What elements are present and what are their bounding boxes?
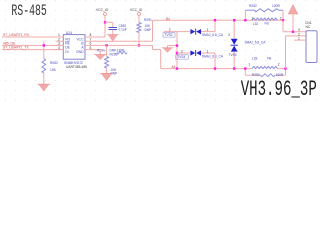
svg-text:ST_USART1_RX: ST_USART1_RX <box>3 33 30 37</box>
wire TVS4 to A <box>214 53 216 69</box>
svg-text:5: 5 <box>90 46 92 50</box>
wire A net horizontal <box>96 44 153 46</box>
svg-text:120R: 120R <box>272 4 281 8</box>
decorative grid <box>5 0 316 101</box>
capacitor C552 <box>109 27 118 29</box>
junction TVS3/A <box>233 67 235 69</box>
svg-text:1: 1 <box>207 49 209 53</box>
svg-text:0.1uF: 0.1uF <box>119 27 127 31</box>
wire pin2 stub <box>56 40 64 42</box>
svg-text:R294: R294 <box>97 49 105 53</box>
svg-text:2: 2 <box>181 49 183 53</box>
svg-text:10K: 10K <box>50 68 57 72</box>
junction TVS4/A <box>214 67 216 69</box>
svg-text:R292: R292 <box>249 4 257 8</box>
svg-text:R291: R291 <box>144 18 152 22</box>
svg-text:R062: R062 <box>50 61 58 65</box>
wire ground branch <box>168 45 178 47</box>
inductor L33 ferrite bead <box>252 66 278 68</box>
junction pair2 left <box>244 67 246 69</box>
svg-text:2: 2 <box>280 16 282 20</box>
wire B net riser <box>152 20 154 41</box>
junction pair right <box>282 19 284 21</box>
svg-text:L33: L33 <box>252 56 258 60</box>
wire pin3 stub <box>56 44 64 46</box>
wire net ST_USART1_TX <box>2 49 64 51</box>
svg-text:1: 1 <box>207 28 209 32</box>
wire TVS4 row <box>177 52 190 54</box>
svg-text:TVS4: TVS4 <box>177 55 185 59</box>
wire TVS3 vertical <box>233 20 235 38</box>
junction TVS2/B <box>214 19 216 21</box>
resistor R292 <box>244 10 246 20</box>
ground under R295 <box>101 74 111 81</box>
resistor R291 <box>137 23 141 33</box>
wire net ST_USART1_RX <box>2 36 64 38</box>
svg-text:1: 1 <box>252 16 254 20</box>
svg-text:DI: DI <box>65 50 68 54</box>
wire TVS center tie <box>176 32 178 69</box>
wire pin1 stub <box>56 36 64 38</box>
wire to C552 <box>105 21 113 23</box>
svg-text:DNP: DNP <box>145 28 152 32</box>
svg-text:UART485-485: UART485-485 <box>66 65 87 69</box>
wire CN1 pin1 stub <box>294 39 306 41</box>
diode TVS4 SMAJ_6.8_CA <box>190 50 195 55</box>
wire A bottom line <box>161 68 246 70</box>
svg-text:DNP,120R: DNP,120R <box>110 49 126 53</box>
wire pin8 stub <box>85 36 96 38</box>
diode TVS2 SMAJ_6.8_CA <box>190 29 195 34</box>
wire pin5 to ground <box>99 50 101 55</box>
svg-text:1: 1 <box>248 63 250 67</box>
svg-text:2: 2 <box>278 63 280 67</box>
wire A net staircase <box>152 45 154 49</box>
svg-text:L32: L32 <box>253 22 259 26</box>
svg-text:SMAJ_6.8_CA: SMAJ_6.8_CA <box>202 33 224 37</box>
wire R062 to ground <box>43 73 45 84</box>
svg-text:SMAJ_6.8_CA: SMAJ_6.8_CA <box>202 55 224 59</box>
svg-text:GND: GND <box>76 50 84 54</box>
ground pin5 <box>95 55 105 60</box>
junction TVS3/B <box>233 19 235 21</box>
svg-text:R295: R295 <box>110 52 118 56</box>
svg-text:VCC_IO: VCC_IO <box>130 8 143 12</box>
junction pair2 right <box>284 67 286 69</box>
junction pair left <box>244 19 246 21</box>
wire pin7 stub <box>85 40 96 42</box>
resistor R062 <box>42 59 46 74</box>
junction DE tie <box>43 44 45 46</box>
resistor R293 <box>244 69 246 76</box>
wire R295 to ground <box>106 68 108 74</box>
diode TVS3 SMAJ_6.8_CA <box>231 39 238 45</box>
junction tie row2 <box>176 52 178 54</box>
junction R291/A <box>138 44 140 46</box>
svg-text:2: 2 <box>169 28 171 32</box>
svg-text:ST_USART1_TX: ST_USART1_TX <box>3 46 29 50</box>
wire VCC to R291 <box>138 16 140 23</box>
ground under R062 <box>39 84 49 91</box>
svg-text:A4: A4 <box>172 65 176 69</box>
svg-text:TVS2: TVS2 <box>165 33 173 37</box>
junction VCC/C552 <box>104 21 106 23</box>
svg-text:VH3.96_3P: VH3.96_3P <box>241 77 317 101</box>
svg-text:RS-485: RS-485 <box>11 2 46 20</box>
wire pin5 stub <box>85 49 100 51</box>
power arrow <box>292 14 294 32</box>
junction tie A line <box>176 67 178 69</box>
svg-text:SMAJ_6.8_CA: SMAJ_6.8_CA <box>245 41 267 45</box>
wire TVS2 row <box>164 31 190 33</box>
wire net 485_DE <box>2 44 64 46</box>
svg-text:VCC_IO: VCC_IO <box>96 8 109 12</box>
svg-text:100R: 100R <box>276 73 284 77</box>
wire ground stem <box>167 46 169 48</box>
IC U24 SN65HVD72 RS-485 transceiver <box>63 35 85 60</box>
resistor R295 <box>106 45 108 56</box>
wire B top line <box>153 19 284 21</box>
wire pin6 stub <box>85 44 96 46</box>
svg-text:B4: B4 <box>166 17 170 21</box>
wire to CN1 pin3 <box>282 20 284 32</box>
inductor L32 ferrite bead <box>252 18 278 20</box>
TVS2 label <box>163 33 175 37</box>
svg-text:FB: FB <box>267 56 271 60</box>
svg-text:FB: FB <box>265 22 269 26</box>
svg-text:NC: NC <box>306 25 311 29</box>
junction R295/A <box>105 44 107 46</box>
svg-text:4: 4 <box>58 46 60 50</box>
wire to CN1 pin2 <box>285 36 287 69</box>
svg-text:R293: R293 <box>252 73 260 77</box>
ground under C552 <box>108 35 117 41</box>
svg-text:TVS3: TVS3 <box>229 53 237 57</box>
wire pin4 stub <box>56 49 64 51</box>
wire C552 to ground <box>112 30 114 35</box>
TVS4 label <box>176 55 189 59</box>
svg-text:2: 2 <box>228 33 230 37</box>
wire RE-DE tie <box>43 41 45 58</box>
wire R291 to A net <box>138 33 140 46</box>
svg-text:U24: U24 <box>66 31 72 35</box>
junction arrow <box>292 31 294 33</box>
wire VCC to pin8 <box>104 16 106 38</box>
junction tie/ground <box>176 44 178 46</box>
ground TVS center <box>163 48 172 53</box>
wire TVS2 to B <box>214 20 216 31</box>
svg-text:1: 1 <box>298 37 300 41</box>
connector CN1 <box>306 31 317 63</box>
